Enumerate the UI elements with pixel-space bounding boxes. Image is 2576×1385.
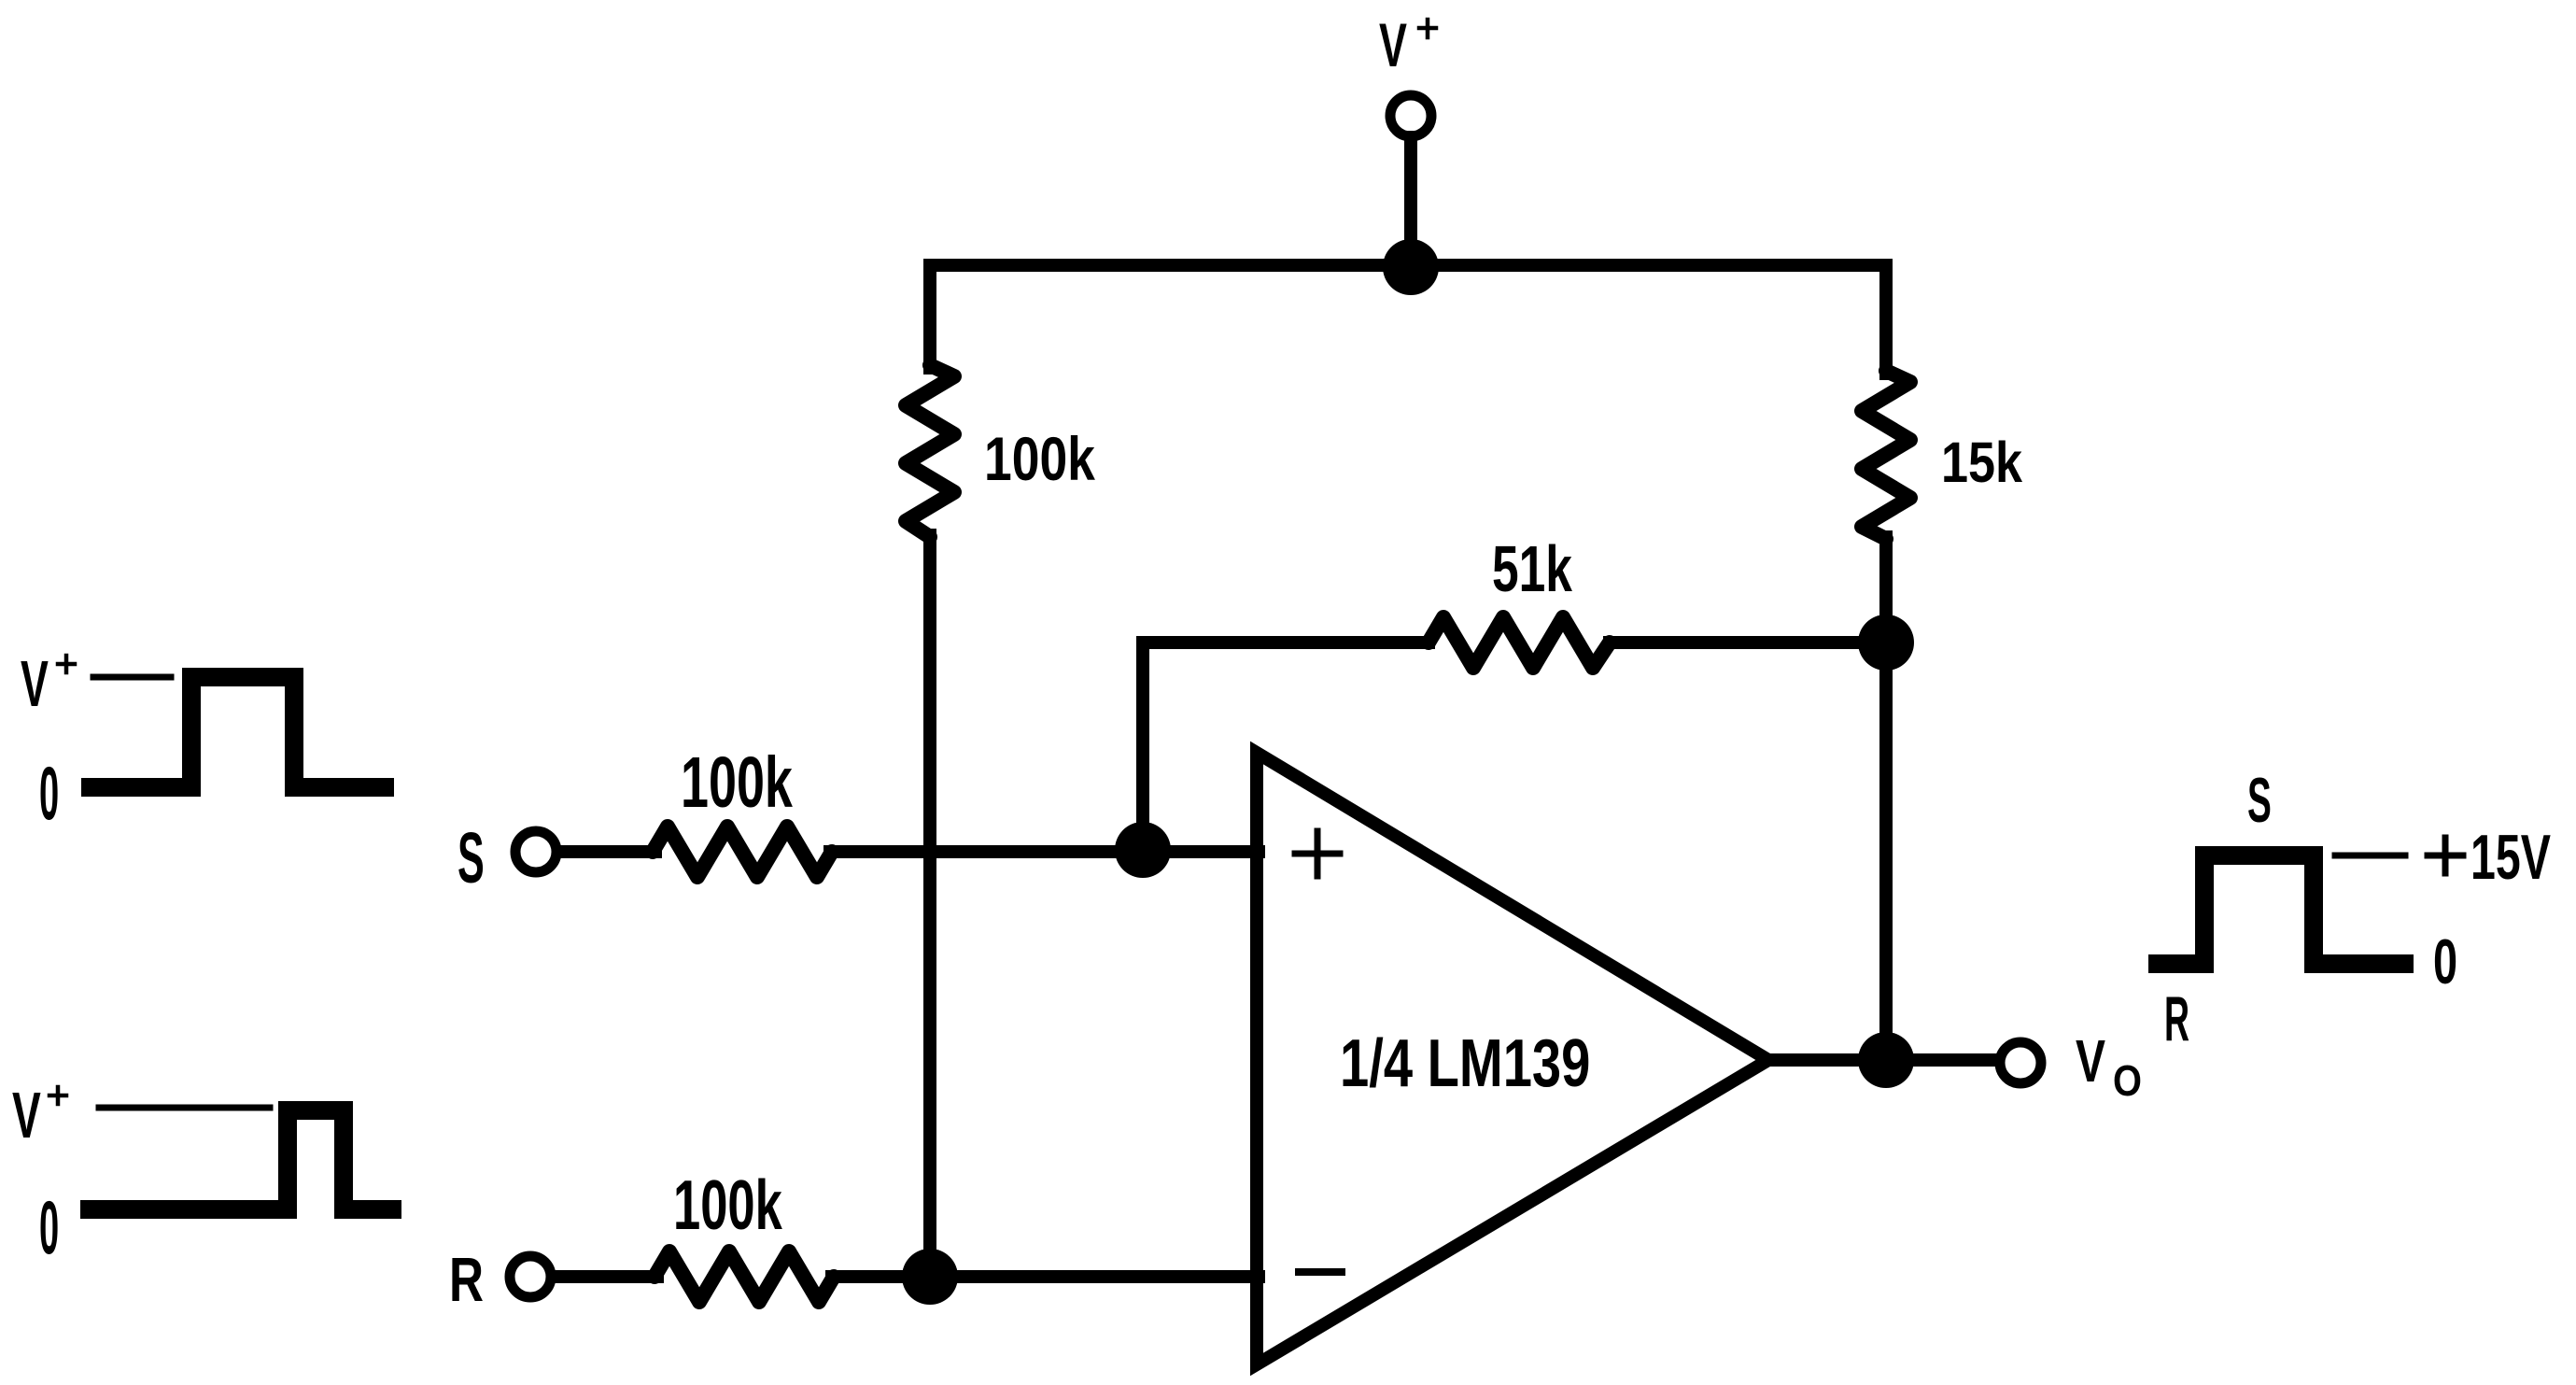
svg-text:15V: 15V [2470, 823, 2551, 893]
svg-text:0: 0 [2433, 926, 2457, 997]
wire left branch lower (100k pull-up down to R node, crosses S wire) [923, 535, 936, 1277]
wire V+ stub [1404, 137, 1417, 267]
svg-text:O: O [2113, 1057, 2142, 1105]
value label 100k (S input) [681, 743, 794, 824]
wire 51k row right segment [1610, 636, 1886, 649]
net label S [457, 819, 485, 898]
wire S 100k to op-amp plus input (crosses left branch, junction at 51k leg) [830, 845, 1259, 858]
resistor 51k feedback (horizontal) [1429, 617, 1610, 668]
axis label V+ (R waveform) [12, 1078, 41, 1152]
waveform R input (lower left) [90, 1110, 392, 1209]
svg-text:51k: 51k [1492, 532, 1573, 606]
resistor 100k S input (horizontal) [653, 827, 832, 877]
resistor 100k R input (horizontal) [655, 1251, 834, 1302]
svg-text:R: R [2164, 982, 2189, 1054]
wire top rail from left branch to right branch [930, 259, 1886, 272]
annotation R (output waveform) [2164, 982, 2189, 1054]
resistor 15k pull-up (vertical, right) [1862, 371, 1910, 539]
terminal Vo (open circle) [2000, 1042, 2041, 1083]
value label 100k (R input) [673, 1166, 783, 1245]
wire R 100k to op-amp minus input [832, 1270, 1259, 1283]
net label Vo [2076, 1027, 2142, 1105]
value label 100k (pull-up) [984, 425, 1095, 494]
svg-text:100k: 100k [681, 743, 794, 824]
value label 15k [1941, 431, 2022, 495]
waveform S input (upper left) [91, 677, 385, 787]
axis label V+ (S waveform) [21, 648, 49, 720]
node V+ junction on top rail [1383, 239, 1439, 295]
value label 51k [1492, 532, 1573, 606]
wire 51k row left segment [1143, 636, 1429, 649]
plus sign of V+ label [1419, 20, 1436, 37]
svg-text:0: 0 [39, 1186, 59, 1270]
terminal R (open circle) [510, 1256, 551, 1297]
svg-text:V: V [1379, 10, 1407, 79]
axis label 0 (R waveform) [39, 1186, 59, 1270]
svg-text:100k: 100k [673, 1166, 783, 1245]
pin label minus input [1299, 1268, 1342, 1276]
level dash V+ (S waveform) [93, 674, 171, 681]
wire right branch (15k bottom to output node) [1879, 537, 1893, 1060]
annotation S (output waveform) [2247, 765, 2272, 836]
svg-text:0: 0 [39, 752, 59, 836]
node plus input junction [1115, 822, 1171, 878]
svg-text:1/4 LM139: 1/4 LM139 [1340, 1025, 1590, 1100]
net label R [449, 1244, 484, 1314]
node output junction [1858, 1032, 1914, 1088]
level line V+ (R waveform) [99, 1105, 270, 1111]
svg-text:S: S [2247, 765, 2272, 836]
node feedback junction (15k / 51k / output column) [1858, 615, 1914, 671]
wire 51k left leg down to plus input node [1136, 643, 1149, 850]
pin label plus input [1295, 831, 1340, 876]
wire S terminal to 100k [562, 845, 655, 858]
net label V+ [1379, 10, 1407, 79]
svg-text:V: V [2076, 1027, 2105, 1094]
wire right branch upper (top rail to 15k) [1879, 265, 1893, 374]
level label +15V [2428, 838, 2463, 873]
terminal S (open circle) [515, 831, 556, 872]
svg-text:S: S [457, 819, 485, 898]
node R / pull-up junction [902, 1249, 958, 1305]
svg-text:V: V [12, 1078, 41, 1152]
waveform output Vo (right) [2158, 855, 2404, 964]
resistor 100k pull-up (vertical, left) [906, 365, 954, 537]
part label 1/4 LM139 [1340, 1025, 1590, 1100]
wire left branch upper (top rail to 100k pull-up) [923, 265, 936, 368]
axis label 0 (S waveform) [39, 752, 59, 836]
svg-text:15k: 15k [1941, 431, 2022, 495]
svg-text:R: R [449, 1244, 484, 1314]
svg-text:V: V [21, 648, 49, 720]
svg-text:100k: 100k [984, 425, 1095, 494]
level label 0 (output waveform) [2433, 926, 2457, 997]
terminal V+ (open circle) [1390, 95, 1431, 136]
wire R terminal to 100k [556, 1270, 657, 1283]
level dash +15V (output waveform) [2335, 853, 2405, 859]
wire op-amp output to Vo terminal [1768, 1053, 1995, 1067]
op-amp U1 1/4 LM139 (comparator triangle) [1257, 753, 1768, 1364]
